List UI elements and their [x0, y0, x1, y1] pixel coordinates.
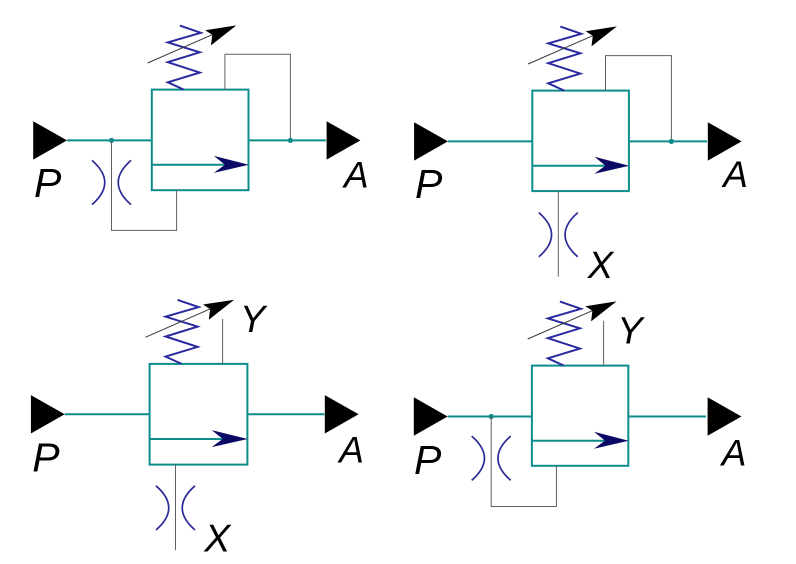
external drain line Y (valve 3): [222, 319, 224, 364]
svg-text:Y: Y: [617, 310, 645, 352]
adjustable spring (valve 3): [166, 300, 199, 364]
port P arrowhead (valve 4): [414, 397, 448, 435]
port P arrowhead (valve 2): [414, 122, 448, 160]
external pilot line X (valve 3): [175, 465, 177, 551]
flow path line (valve 2): [532, 165, 606, 167]
pilot drain line with orifice (valve 1): [112, 140, 177, 230]
svg-text:A: A: [721, 154, 748, 195]
port A arrowhead (valve 4): [708, 397, 742, 435]
pilot line box top to outlet (valve 2): [606, 56, 672, 142]
spring adjustment arrow shaft (valve 1): [148, 34, 213, 63]
orifice restrictor left arc (valve 2): [539, 213, 552, 257]
svg-text:A: A: [337, 430, 364, 471]
spring adjustment arrow shaft (valve 2): [528, 35, 593, 64]
wire valve body to A (valve 1): [249, 139, 326, 141]
external drain line Y (valve 4): [603, 321, 605, 366]
valve body (valve 3): [150, 364, 248, 465]
adjustable spring (valve 4): [548, 302, 581, 366]
valve body (valve 1): [152, 90, 249, 191]
spring adjustment arrowhead (valve 3): [203, 300, 234, 320]
pilot line box top to outlet (valve 1): [225, 54, 291, 140]
pilot line with orifice (valve 4): [491, 417, 556, 507]
orifice restrictor left arc (valve 1): [92, 160, 105, 204]
spring adjustment arrow shaft (valve 4): [528, 310, 593, 339]
port P arrowhead (valve 1): [33, 121, 67, 159]
external drain line X (valve 2): [557, 191, 559, 277]
orifice restrictor right arc (valve 2): [565, 213, 578, 257]
flow path line (valve 1): [152, 164, 226, 166]
wire valve body to A (valve 4): [628, 416, 706, 418]
spring adjustment arrow shaft (valve 3): [145, 309, 210, 338]
wire valve body to A (valve 3): [247, 413, 324, 415]
svg-text:A: A: [342, 155, 369, 196]
orifice restrictor left arc (valve 4): [472, 436, 485, 480]
wire P to valve body (valve 4): [448, 416, 532, 418]
svg-text:P: P: [34, 160, 62, 206]
adjustable spring (valve 1): [168, 26, 201, 90]
orifice restrictor left arc (valve 3): [156, 486, 169, 530]
spring adjustment arrowhead (valve 1): [205, 25, 236, 45]
orifice restrictor right arc (valve 3): [182, 486, 195, 530]
wire P to valve body (valve 1): [67, 139, 152, 141]
svg-text:X: X: [203, 517, 232, 560]
valve body (valve 2): [532, 91, 629, 192]
wire P to valve body (valve 2): [448, 140, 532, 142]
svg-text:Y: Y: [240, 299, 268, 341]
port A arrowhead (valve 2): [708, 122, 742, 160]
flow path arrowhead (valve 1): [214, 156, 249, 173]
port P arrowhead (valve 3): [31, 395, 65, 433]
svg-text:X: X: [587, 245, 615, 287]
orifice restrictor right arc (valve 4): [498, 436, 511, 480]
svg-text:P: P: [415, 161, 443, 207]
spring adjustment arrowhead (valve 2): [586, 26, 617, 46]
valve body (valve 4): [532, 366, 628, 466]
spring adjustment arrowhead (valve 4): [585, 301, 616, 321]
flow path line (valve 3): [150, 438, 224, 440]
wire P to valve body (valve 3): [65, 413, 150, 415]
svg-text:A: A: [720, 432, 747, 473]
port A arrowhead (valve 1): [327, 121, 361, 159]
junction node on outlet line (valve 2): [669, 139, 674, 144]
orifice restrictor right arc (valve 1): [118, 160, 131, 204]
flow path line (valve 4): [532, 440, 606, 442]
svg-text:P: P: [414, 437, 442, 483]
flow path arrowhead (valve 3): [212, 430, 248, 447]
svg-text:P: P: [32, 434, 60, 480]
junction node on inlet line (valve 1): [109, 138, 114, 143]
flow path arrowhead (valve 2): [594, 157, 629, 174]
junction node on outlet line (valve 1): [288, 138, 293, 143]
junction node on inlet line (valve 4): [489, 414, 494, 419]
port A arrowhead (valve 3): [325, 395, 359, 433]
wire valve body to A (valve 2): [629, 140, 707, 142]
adjustable spring (valve 2): [548, 27, 581, 91]
flow path arrowhead (valve 4): [594, 432, 629, 449]
